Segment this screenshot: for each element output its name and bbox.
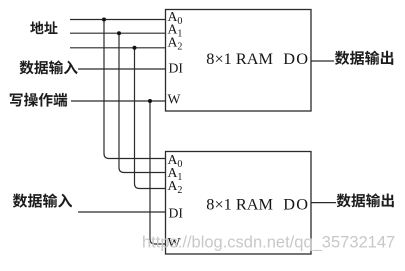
wire DO output line (top RAM)	[311, 60, 334, 62]
svg-text:W: W	[168, 92, 181, 107]
net label: data output (bottom)	[337, 193, 394, 207]
RAM block U2 (bottom 8x1 RAM)	[166, 152, 312, 255]
wire W input line (top RAM)	[71, 100, 166, 102]
svg-text:8×1 RAM: 8×1 RAM	[206, 194, 273, 213]
junction node A1 branch	[117, 31, 121, 35]
junction node A0 branch	[102, 18, 106, 22]
wire W branch to bottom RAM	[150, 101, 166, 244]
wire A2 branch to bottom RAM	[135, 48, 166, 189]
wire A2 input line	[70, 47, 166, 49]
junction node A2 branch	[133, 46, 137, 50]
net label: write enable	[10, 93, 67, 107]
svg-text:DO: DO	[283, 194, 309, 213]
net label: data input (top)	[20, 60, 78, 74]
junction node W branch	[148, 99, 152, 103]
wire A0 input line	[70, 19, 166, 21]
RAM block U1 (top 8x1 RAM)	[166, 10, 312, 112]
wire A1 branch to bottom RAM	[119, 33, 166, 172]
wire DO output line (bottom RAM)	[311, 202, 336, 204]
svg-text:DO: DO	[283, 49, 309, 68]
svg-text:https://blog.csdn.net/qq_35732: https://blog.csdn.net/qq_35732147	[142, 234, 395, 252]
net label: data output (top)	[335, 51, 393, 65]
wire DI input line (bottom RAM)	[78, 211, 166, 213]
svg-text:DI: DI	[169, 61, 184, 76]
svg-text:8×1 RAM: 8×1 RAM	[206, 49, 273, 68]
net label: address	[30, 21, 57, 34]
wire A1 input line	[70, 32, 166, 34]
svg-text:DI: DI	[169, 206, 184, 221]
net label: data input (bottom)	[13, 193, 72, 207]
wire A0 branch to bottom RAM	[104, 20, 166, 159]
wire DI input line (top RAM)	[78, 68, 166, 70]
